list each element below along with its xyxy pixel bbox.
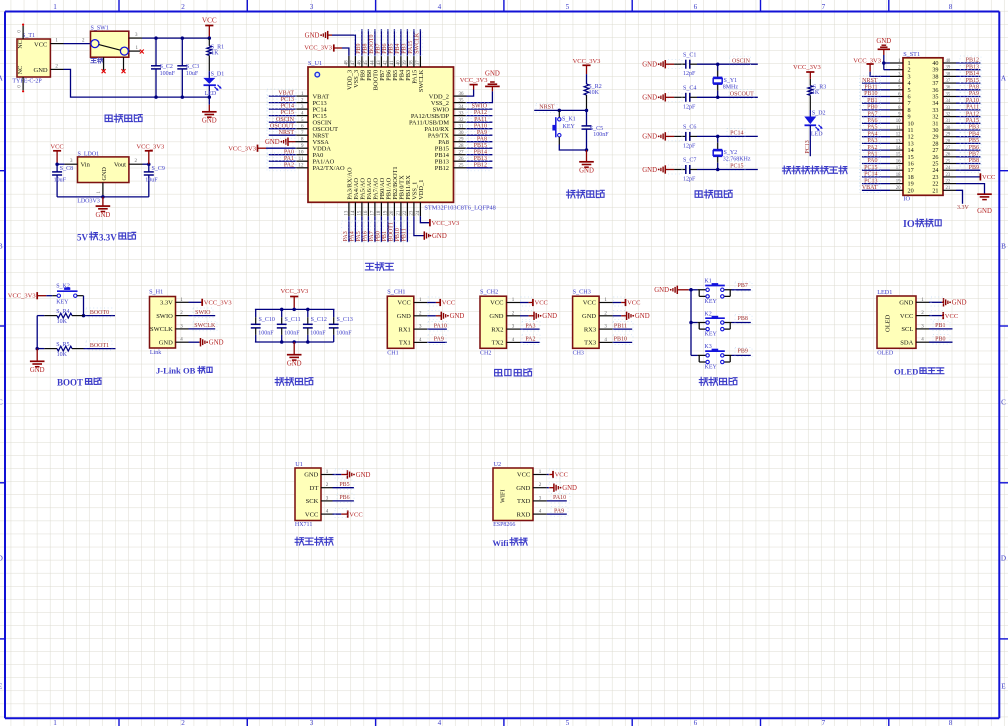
pin 12 of S_ST1 [890,136,903,138]
svg-text:PB8: PB8 [969,158,979,164]
svg-text:A: A [1001,75,1007,83]
svg-text:S_D1: S_D1 [211,72,225,78]
wire and net label PA4 at U1 pin 14 [354,216,356,242]
wire OSCOUT net [697,96,758,98]
wire and net label PA10 at ESP8266 pin3 [547,500,567,502]
pin 25 PB12 of U1 [454,167,467,169]
svg-text:27: 27 [946,146,951,151]
svg-text:GND: GND [356,472,371,479]
svg-text:26: 26 [946,153,951,158]
svg-text:OLED: OLED [885,314,892,332]
svg-text:11: 11 [896,126,901,131]
svg-text:SWCLK: SWCLK [150,326,173,333]
wire and net label PB3 at U1 pin 39 [406,29,408,56]
wire and net label PB7 at K1 [732,289,751,291]
svg-text:34: 34 [459,105,465,110]
wire filter top rail [255,308,335,310]
wire and net label PB6 at U1 pin 42 [387,29,389,56]
pin 27 of S_ST1 [943,149,956,151]
svg-text:WIFI: WIFI [500,490,507,503]
pin 23 of S_ST1 [943,176,956,178]
svg-text:100nF: 100nF [284,330,300,336]
svg-text:33: 33 [459,112,465,117]
wire switch pin3 to VCC rail [142,37,209,39]
svg-text:33: 33 [946,106,951,111]
svg-text:RXD: RXD [517,511,531,518]
svg-text:SWCLK: SWCLK [418,69,425,92]
svg-text:VCC: VCC [397,300,410,307]
wire and net label PB0 at LED1 pin4 [929,341,953,343]
connector S_ST1 body [903,58,943,196]
svg-text:VCC_3V3: VCC_3V3 [280,288,308,295]
wire and net label PB10 at U1 pin 21 [400,216,402,242]
pin 33 PA12/USB/DP of U1 [454,115,467,117]
svg-text:S_H1: S_H1 [149,289,163,296]
svg-text:8MHz: 8MHz [723,84,739,90]
pin 21 of S_ST1 [943,189,956,191]
pin 42 PB6 of U1 top [387,56,389,67]
svg-text:GND: GND [202,118,217,125]
svg-text:12pF: 12pF [683,104,696,110]
power VCC at S_ST1 pin23 [956,176,980,178]
svg-text:S_Y1: S_Y1 [724,78,738,84]
wire and net label PB10 at S_ST1 pin 6 [862,96,890,98]
svg-text:PA2: PA2 [867,145,877,151]
pin 22 of S_ST1 [943,183,956,185]
svg-text:18: 18 [896,173,901,178]
pin 3 SCK of U1 module [321,500,333,502]
svg-text:VCC_3V3: VCC_3V3 [304,45,332,52]
wire rail to K2 [691,322,698,324]
pin 34 SWIO of U1 [454,108,467,110]
wire and net label PB7 at U1 pin 43 [380,29,382,56]
svg-text:100nF: 100nF [310,330,326,336]
svg-text:PA10: PA10 [553,495,566,501]
svg-text:25: 25 [459,164,465,169]
wire and net label PB11 at S_CH3 pin3 [613,328,633,330]
pin 0 bottom of S_T1 [22,77,24,90]
svg-text:VCC: VCC [442,300,455,307]
svg-text:PB12: PB12 [435,165,449,172]
wire and net label PC15 at S_ST1 pin 17 [862,169,890,171]
svg-text:1: 1 [53,719,57,726]
svg-text:GND: GND [159,339,173,346]
pin 3 PC14 of U1 [296,108,309,110]
pin 9 VDDA of U1 [296,147,309,149]
pin 28 PB15 of U1 [454,147,467,149]
wire and net label PA2 at U1 pin 12 [269,167,296,169]
pin 9 of S_ST1 [890,116,903,118]
capacitor S_C8 10uF [56,164,58,172]
svg-text:SWIO: SWIO [156,313,173,320]
svg-text:TX1: TX1 [399,340,411,347]
pin 1 3.3V of S_H1 [176,301,189,303]
svg-text:30: 30 [946,126,951,131]
svg-text:NC: NC [17,40,24,49]
wire and net label NRST at U1 pin 7 [269,134,296,136]
pin 3 RX2 of S_CH2 [507,328,521,330]
svg-text:10K: 10K [589,90,600,96]
wire and net label PA3 at S_CH2 pin3 [520,328,540,330]
wire and net label PA7 at U1 pin 17 [374,216,376,242]
svg-text:PB4: PB4 [969,131,979,137]
svg-text:19: 19 [384,210,389,216]
pin 18 of S_ST1 [890,176,903,178]
svg-text:PA1: PA1 [867,152,877,158]
pin 1 VCC of S_CH2 [507,302,521,304]
header S_H1 body [150,297,176,349]
wire U1 VSS_2 to GND [467,91,493,102]
svg-text:Link: Link [150,350,161,356]
svg-text:42: 42 [384,60,389,66]
svg-text:6: 6 [694,3,698,11]
caption keys circuit [699,377,707,385]
svg-text:VCC_3V3: VCC_3V3 [204,300,232,307]
svg-text:IO: IO [903,219,915,230]
svg-text:PC13: PC13 [281,97,294,103]
pin 35 VSS_2 of U1 [454,102,467,104]
pin 18 PB0/AO of U1 bottom [380,202,382,216]
svg-text:GND: GND [265,139,280,146]
pin 2 SWIO of S_H1 [176,315,189,317]
svg-text:S_C10: S_C10 [259,317,275,323]
pin 20 PB2/BOOT1 of U1 bottom [393,202,395,216]
svg-text:3.3V: 3.3V [99,232,117,242]
svg-text:3: 3 [310,3,314,11]
svg-text:16: 16 [364,210,369,216]
pin 3 of S_ST1 [890,75,903,77]
pin 24 of S_ST1 [943,169,956,171]
svg-text:5: 5 [566,719,570,726]
svg-text:GND: GND [101,167,108,181]
svg-text:BOOT1: BOOT1 [90,343,109,349]
wire and net label PB4 at U1 pin 40 [400,29,402,56]
pin 21 PB10/TX of U1 bottom [400,202,402,216]
svg-text:GND: GND [642,167,657,174]
svg-text:K1: K1 [704,279,711,285]
svg-text:S_K2: S_K2 [56,283,70,289]
wire and net label PA9 at ESP8266 pin4 [547,513,567,515]
svg-text:TXD: TXD [517,498,531,505]
wire and net label OSCIN at U1 pin 5 [269,121,296,123]
svg-text:D: D [0,555,3,563]
wire and net label PA1 at S_ST1 pin 15 [862,156,890,158]
svg-text:4: 4 [438,3,442,11]
pin 4 TX1 of S_CH1 [414,341,428,343]
pin 2 GND of S_CH1 [414,315,428,317]
svg-text:PA2: PA2 [284,162,294,168]
wire and net label PA0 at S_ST1 pin 16 [862,163,890,165]
svg-text:24: 24 [416,210,421,216]
pin 2 of S_ST1 [890,69,903,71]
svg-text:VCC: VCC [627,300,640,307]
wire U1 VSS_1 to GND [414,216,424,235]
pin 38 PA15 of U1 top [413,56,415,67]
resistor S_R4 10K [37,315,44,317]
pin 47 VSS_3 of U1 top [354,56,356,67]
header S_CH3 body [573,296,600,348]
svg-text:GND: GND [562,485,577,492]
svg-text:26: 26 [459,157,465,162]
pin 39 of S_ST1 [943,69,956,71]
pin 2 DT of U1 module [321,487,333,489]
svg-text:S_C9: S_C9 [152,166,165,172]
svg-text:PB9: PB9 [738,349,748,355]
pin 3 RX1 of S_CH1 [414,328,428,330]
svg-text:20: 20 [896,186,901,191]
wire and net label PA5 at U1 pin 15 [361,216,363,242]
svg-text:VCC: VCC [50,144,63,151]
wire LDO bottom rail [57,196,149,198]
pin 45 PB8 of U1 top [367,56,369,67]
pin 17 PA7/AO of U1 bottom [374,202,376,216]
wire and net label SWIO [189,315,216,317]
svg-text:10: 10 [896,119,901,124]
capacitor S_C7 12pF [674,169,686,171]
pin 8 VSSA of U1 [296,141,309,143]
header S_CH2 body [480,296,507,348]
capacitor S_C1 12pF [674,63,686,65]
net 3.3V at S_ST1 pin21 [956,190,963,203]
svg-text:35: 35 [946,92,951,97]
svg-text:VCC: VCC [583,300,596,307]
wire BOOT left rail [36,316,38,349]
svg-text:3.3V: 3.3V [160,300,173,307]
svg-text:10K: 10K [57,352,68,358]
svg-text:PA9: PA9 [477,130,487,136]
pin 36 of S_ST1 [943,89,956,91]
svg-text:S_R5: S_R5 [56,342,69,348]
caption reset circuit [567,190,575,198]
svg-text:GND: GND [489,313,503,320]
capacitor S_C13 100nF [333,309,335,317]
svg-text:100nF: 100nF [593,132,609,138]
svg-text:S_C11: S_C11 [285,317,301,323]
svg-text:7: 7 [822,3,826,11]
svg-text:S_CH2: S_CH2 [480,289,498,296]
svg-text:VCC: VCC [517,472,530,479]
svg-text:KEY: KEY [705,365,718,371]
wire T1 GND to bottom rail [64,69,210,97]
wire and net label PC14 at U1 pin 3 [269,108,296,110]
svg-text:S_C13: S_C13 [337,317,353,323]
pin 26 of S_ST1 [943,156,956,158]
pin 48 VDD_3 of U1 top [348,56,350,67]
wire and net label PB6 at S_ST1 pin 27 [956,149,980,151]
resistor S_R3 1K [809,79,811,86]
wire and net label PA9 at S_ST1 pin 35 [956,96,980,98]
svg-text:16: 16 [896,159,901,164]
header S_CH1 body [387,296,414,348]
wire and net label PA6 at S_ST1 pin 10 [862,122,890,124]
ground GND at S_CH2 pin2 [520,315,529,317]
svg-text:S_C3: S_C3 [186,64,199,70]
pin 25 of S_ST1 [943,163,956,165]
svg-text:13: 13 [345,210,350,216]
wire and net label PB1 at S_ST1 pin 7 [862,102,890,104]
svg-text:SWIO: SWIO [195,310,211,316]
svg-text:Vin: Vin [81,162,91,169]
svg-text:20: 20 [390,210,395,216]
wire and net label PC15 at U1 pin 4 [269,115,296,117]
svg-text:GND: GND [305,32,320,39]
wire and net label PA8 at U1 pin 29 [467,141,493,143]
svg-text:BOOT0: BOOT0 [90,310,109,316]
svg-text:22: 22 [946,180,951,185]
key S_K2 [46,295,52,297]
svg-text:39: 39 [946,66,951,71]
svg-text:C: C [0,399,3,407]
svg-text:S_C2: S_C2 [160,64,173,70]
svg-text:VCC: VCC [349,511,362,518]
ground GND at LED1 pin1 [929,301,942,303]
svg-text:37: 37 [416,60,421,66]
svg-text:37: 37 [946,79,951,84]
svg-text:PB0: PB0 [375,231,381,241]
wire and net label PA9 at U1 pin 30 [467,134,493,136]
svg-text:12: 12 [299,164,305,169]
svg-text:PA8: PA8 [477,136,487,142]
pin 24 VDD_1 of U1 bottom [419,202,421,216]
svg-text:OLED: OLED [877,350,894,356]
svg-text:S_Y2: S_Y2 [724,150,738,156]
pin 5 of S_ST1 [890,89,903,91]
svg-text:PB1: PB1 [935,323,945,329]
svg-text:TX2: TX2 [492,340,504,347]
wire keys left rail [689,289,698,291]
svg-text:S_C6: S_C6 [683,125,696,131]
caption filter circuit [275,377,283,385]
svg-text:GND: GND [96,212,111,219]
pin 7 of S_ST1 [890,102,903,104]
wire and net label PB5 at S_ST1 pin 28 [956,142,980,144]
capacitor S_C3 10uF [181,38,183,66]
pin 32 of S_ST1 [943,116,956,118]
svg-text:38: 38 [946,72,951,77]
pin 29 PA8 of U1 [454,141,467,143]
wire filter bottom rail [255,341,334,343]
wire and net label PB11 at U1 pin 22 [406,216,408,242]
svg-text:D: D [1001,555,1006,563]
wire key K2 down to BOOT0 [83,296,85,316]
svg-text:21: 21 [932,187,938,194]
capacitor S_C4 12pF [674,96,686,98]
svg-text:PB7: PB7 [969,152,979,158]
svg-text:2: 2 [181,3,185,11]
wire and net label PA10 at U1 pin 31 [467,128,493,130]
svg-text:32: 32 [459,118,465,123]
pin 38 of S_ST1 [943,75,956,77]
pin 4 SDA of LED1 [916,341,929,343]
wire and net label PB13 at S_ST1 pin 39 [956,69,980,71]
svg-text:PB11: PB11 [614,323,627,329]
svg-text:PB12: PB12 [474,162,487,168]
pin 1 GND of U1 module [321,474,333,476]
wire and net label PB4 at S_ST1 pin 29 [956,136,980,138]
svg-text:VCC_3V3: VCC_3V3 [793,64,821,71]
wire OSCIN net [697,63,758,65]
svg-text:GND: GND [34,67,48,74]
svg-text:VCC: VCC [202,17,217,25]
svg-text:21: 21 [397,210,402,216]
wire and net label NRST at S_ST1 pin 4 [862,82,890,84]
svg-text:25: 25 [946,159,951,164]
svg-text:S_C8: S_C8 [60,166,73,172]
pin 13 of S_ST1 [890,142,903,144]
svg-text:GND: GND [304,472,318,479]
pin 16 PA6/AO of U1 bottom [367,202,369,216]
svg-text:LED: LED [811,131,823,137]
svg-text:SWCLK: SWCLK [415,32,421,54]
pin 2 GND of S_T1 [50,68,63,70]
pin 31 of S_ST1 [943,122,956,124]
svg-text:47: 47 [351,60,356,66]
svg-text:S_R4: S_R4 [56,309,69,315]
wire U1 VDD_1 to VCC_3V3 [420,216,430,222]
svg-text:PB6: PB6 [969,145,979,151]
svg-text:CH3: CH3 [573,350,584,356]
power VCC at LED1 pin2 [929,315,942,317]
pin 1 VCC of S_CH1 [414,302,428,304]
svg-text:GND: GND [977,208,992,215]
svg-text:40: 40 [397,60,402,66]
svg-text:PA7: PA7 [867,111,877,117]
wire and net label PB13 at U1 pin 26 [467,160,493,162]
wire and net label PA11 at U1 pin 32 [467,121,493,123]
svg-text:PC15: PC15 [730,164,743,170]
svg-text:23: 23 [946,173,951,178]
capacitor S_C12 100nF [307,309,309,317]
svg-text:10uF: 10uF [145,178,158,184]
svg-text:VBAT: VBAT [278,91,294,97]
ground GND of LDO [102,197,104,206]
svg-text:GND: GND [579,168,594,175]
wire and net label PC14 at S_ST1 pin 18 [862,176,890,178]
wire and net label PA12 at U1 pin 33 [467,115,493,117]
pin 11 of S_ST1 [890,129,903,131]
wire and net label BOOT0 at U1 pin 44 [374,29,376,56]
svg-text:GND: GND [485,71,500,78]
pin 43 PB7 of U1 top [380,56,382,67]
svg-text:Vout: Vout [114,162,126,169]
svg-text:PC14: PC14 [281,104,294,110]
svg-text:U1: U1 [295,461,303,468]
wire and net label OSCOUT at U1 pin 6 [269,128,296,130]
key S_K1 [558,110,560,117]
svg-text:PB8: PB8 [738,316,748,322]
wire indicator to PC13 net [809,125,811,156]
svg-text:36: 36 [459,92,465,97]
svg-text:23: 23 [410,210,415,216]
svg-text:K2: K2 [704,311,711,317]
svg-text:32.768KHz: 32.768KHz [723,156,751,162]
capacitor S_C5 100nF [586,110,588,126]
pin 0 top of S_T1 [22,26,24,39]
svg-text:S_CH3: S_CH3 [573,289,591,296]
svg-text:PB10: PB10 [614,337,627,343]
svg-text:8: 8 [949,719,953,726]
svg-text:PA10: PA10 [434,323,447,329]
svg-text:31: 31 [459,125,465,130]
svg-text:100nF: 100nF [258,330,274,336]
pin 4 RXD of U2 module [533,513,547,515]
capacitor S_C2 100nF [155,38,157,66]
crystal S_Y1 8MHz [716,62,720,66]
pin 23 VSS_1 of U1 bottom [413,202,415,216]
svg-text:S_CH1: S_CH1 [387,289,405,296]
svg-text:10: 10 [299,151,305,156]
wire and net label PA3 at S_ST1 pin 13 [862,142,890,144]
